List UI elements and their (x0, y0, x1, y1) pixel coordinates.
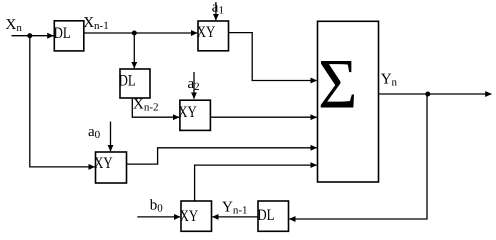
svg-text:a2: a2 (188, 76, 200, 93)
svg-text:XY: XY (197, 24, 216, 41)
svg-text:Xn-2: Xn-2 (133, 97, 159, 114)
svg-text:a0: a0 (88, 124, 101, 141)
svg-text:a1: a1 (212, 0, 224, 17)
svg-text:DL: DL (257, 207, 274, 224)
svg-text:Xn-1: Xn-1 (83, 15, 109, 32)
svg-text:Xn: Xn (6, 17, 23, 34)
svg-text:XY: XY (178, 104, 197, 121)
svg-text:DL: DL (54, 25, 71, 42)
svg-text:XY: XY (180, 208, 199, 225)
svg-text:Σ: Σ (318, 46, 357, 124)
svg-text:Yn: Yn (381, 72, 398, 89)
svg-text:DL: DL (119, 72, 136, 89)
svg-text:Yn-1: Yn-1 (222, 200, 248, 217)
svg-text:b0: b0 (150, 198, 164, 215)
svg-text:XY: XY (94, 155, 113, 172)
